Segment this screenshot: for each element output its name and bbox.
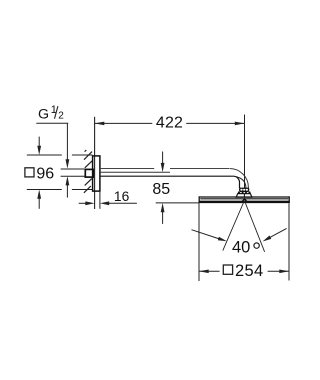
shower head right edge bbox=[288, 196, 290, 203]
wall line bbox=[94, 117, 96, 209]
ball joint cone base bbox=[236, 194, 252, 198]
dimension 254 arrow left bbox=[199, 270, 209, 274]
shower head top face line 2 bbox=[200, 198, 288, 200]
shower arm axis line (85 extension) bbox=[100, 171, 170, 173]
dimension 254 square symbol bbox=[223, 265, 232, 274]
svg-text:85: 85 bbox=[152, 181, 170, 198]
svg-text:422: 422 bbox=[156, 114, 183, 131]
G 1/2 leader arrow up bbox=[66, 176, 70, 185]
dimension 422 extension line right bbox=[244, 115, 246, 189]
dimension 16 right arrow bbox=[100, 201, 109, 205]
shower head top face line 1 bbox=[199, 196, 290, 198]
dimension 16 left arrow bbox=[79, 202, 86, 204]
svg-text:16: 16 bbox=[114, 189, 130, 204]
shower arm bottom line bbox=[100, 175, 233, 177]
ball joint knurled ring 2 bbox=[238, 191, 251, 194]
dimension 16 extension line bbox=[99, 191, 101, 209]
G 1/2 leader arrow down bbox=[66, 123, 68, 161]
spray angle leader right bbox=[269, 228, 287, 238]
escutcheon plate bbox=[93, 156, 100, 191]
dimension 254 extension line right bbox=[288, 203, 290, 280]
label G 1/2 underline bbox=[36, 122, 68, 124]
dimension 422 line bbox=[95, 122, 153, 124]
svg-text:40: 40 bbox=[232, 238, 250, 256]
dimension 96 arrow bottom bbox=[37, 190, 41, 199]
dimension 96 arrow top bbox=[38, 137, 40, 147]
svg-text:G: G bbox=[38, 106, 49, 122]
dimension 422 arrow right bbox=[235, 122, 245, 126]
dimension 254 extension line left bbox=[198, 203, 200, 281]
svg-text:254: 254 bbox=[235, 262, 263, 280]
dimension 96 extension line top bbox=[27, 154, 62, 156]
wall hatch tick top bbox=[85, 150, 87, 152]
shower arm top line bbox=[100, 168, 154, 170]
shower head bottom face bbox=[199, 201, 290, 204]
wall hatch stroke top 2 bbox=[85, 161, 92, 168]
shower arm outer bend bbox=[230, 169, 249, 189]
shower head left edge bbox=[198, 196, 200, 203]
degree symbol bbox=[254, 243, 259, 248]
dimension 254 arrow right bbox=[279, 270, 289, 274]
shower arm inner shading line bbox=[236, 177, 246, 189]
shower arm inner bend bbox=[233, 176, 239, 188]
spray cone right line bbox=[245, 201, 265, 252]
svg-text:2: 2 bbox=[58, 111, 64, 122]
dimension square-96 text bbox=[25, 168, 34, 177]
spray cone left line bbox=[223, 201, 244, 251]
wall hatch stroke top 1 bbox=[84, 152, 92, 160]
svg-text:96: 96 bbox=[36, 165, 54, 182]
dimension 96 extension line bottom bbox=[27, 189, 62, 191]
spray apex chevron bbox=[242, 199, 246, 202]
dimension 85 arrow down bbox=[162, 152, 164, 165]
dimension 85 arrow up bbox=[161, 203, 165, 212]
supply pipe nipple bbox=[61, 168, 85, 170]
ball joint knurled ring 1 bbox=[239, 188, 249, 192]
dimension 254 line bbox=[199, 270, 220, 272]
union nut at wall bbox=[85, 169, 93, 177]
dimension 422 arrow left bbox=[95, 122, 105, 126]
wall hatch stroke bottom 2 bbox=[84, 186, 91, 193]
wall hatch stroke bottom 1 bbox=[85, 179, 92, 186]
dimension 85 extension line bottom bbox=[156, 202, 199, 204]
spray angle leader left bbox=[192, 230, 221, 239]
ball joint centerline through cone bbox=[243, 194, 245, 197]
